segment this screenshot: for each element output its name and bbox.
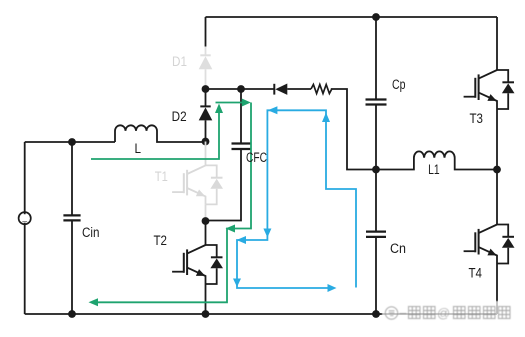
diode D1 (inactive, grey)	[199, 47, 213, 86]
green segment toward CFC top	[216, 102, 245, 104]
resistor (clamp)	[311, 85, 332, 94]
svg-text:Cn: Cn	[390, 241, 406, 256]
blue arrow down beside CFC	[263, 229, 271, 238]
green arrow left bottom return	[89, 298, 99, 306]
wire T3 emitter to midpoint	[496, 109, 498, 225]
green arrow right at CFC top	[242, 99, 251, 107]
wire from top rail down toward D1	[205, 17, 207, 47]
node DC midpoint	[372, 166, 380, 174]
wire T2 emitter to bottom rail	[205, 284, 207, 314]
transistor T3	[464, 70, 515, 109]
node T1/T2 midpoint	[202, 217, 210, 225]
green arrow up beside D2	[215, 104, 223, 114]
wire T2 collector	[205, 221, 207, 245]
node L1 right / T3-T4 midpoint	[493, 166, 501, 174]
node Cin top	[68, 138, 76, 146]
svg-text:D2: D2	[172, 109, 187, 124]
wire T1 emitter to midpoint node (grey)	[205, 204, 207, 217]
wire from D1/D2 node to clamp diode	[206, 88, 275, 90]
transistor T1 (inactive, grey)	[172, 165, 223, 204]
blue arrow left at T2 level	[237, 236, 247, 244]
blue arrow down to bottom	[233, 279, 241, 288]
wire right leg top	[496, 17, 498, 70]
capacitor CFC (flying capacitor)	[206, 89, 251, 221]
watermark	[382, 301, 518, 324]
wire T4 emitter to bottom rail	[496, 264, 498, 315]
wire from resistor down to DC midpoint	[331, 89, 376, 170]
transistor T4	[464, 225, 515, 264]
wire T1 collector (grey)	[205, 142, 207, 166]
svg-text:L1: L1	[428, 162, 440, 177]
svg-text:T3: T3	[470, 111, 484, 126]
blue current path: loop	[237, 110, 356, 288]
node top rail / Cp junction	[372, 13, 380, 21]
green segment down along CFC and back to source	[94, 103, 251, 303]
AC source	[19, 142, 31, 314]
svg-text:D1: D1	[172, 54, 187, 69]
transistor T2	[172, 245, 223, 284]
capacitor Cin	[63, 142, 80, 314]
wire AC top to inductor L	[25, 141, 115, 143]
diode D2	[199, 89, 213, 142]
blue arrow left at top	[268, 106, 278, 114]
capacitor Cn	[366, 170, 386, 315]
svg-text:Cp: Cp	[392, 77, 406, 92]
wire from clamp diode to resistor	[287, 88, 311, 90]
node D2 anode / inductor L junction	[202, 138, 210, 146]
green current path: source loop segment along L	[91, 107, 219, 160]
blue arrow right along bottom	[328, 284, 337, 292]
node T2 emitter / bottom rail	[202, 310, 210, 318]
node D1/D2 junction	[202, 85, 210, 93]
wire bottom rail	[25, 313, 497, 315]
svg-text:L: L	[135, 141, 142, 156]
inductor L1	[376, 151, 497, 169]
svg-text:T1: T1	[155, 169, 168, 184]
svg-text:T4: T4	[469, 266, 483, 281]
blue arrow up beside resistor leg	[322, 113, 330, 123]
capacitor Cp	[366, 17, 387, 170]
svg-text:Cin: Cin	[82, 225, 100, 240]
node Cin bottom	[68, 310, 76, 318]
green arrow left at CFC bottom	[226, 225, 236, 233]
svg-text:@: @	[437, 306, 450, 321]
node CFC top junction	[237, 85, 245, 93]
svg-text:CFC: CFC	[246, 150, 267, 165]
node Cn bottom	[372, 310, 380, 318]
svg-text:T2: T2	[154, 233, 168, 248]
wire top rail	[206, 16, 498, 18]
inductor L	[115, 125, 206, 142]
clamp diode (points left)	[274, 84, 287, 95]
